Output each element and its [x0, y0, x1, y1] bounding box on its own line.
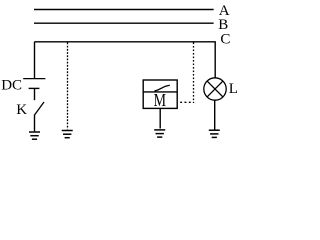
svg-text:C: C	[220, 31, 230, 47]
battery DC positive plate	[23, 78, 45, 80]
lamp L circle	[204, 78, 226, 100]
wire phase line C	[34, 41, 215, 43]
svg-text:M: M	[154, 90, 166, 110]
motor box divider	[143, 91, 177, 93]
switch K blade	[35, 102, 45, 115]
svg-text:L: L	[229, 81, 238, 97]
battery DC negative plate	[29, 87, 40, 89]
motor M enclosure box	[143, 80, 177, 108]
wire battery to switch K	[34, 88, 36, 100]
lamp L cross stroke 2	[207, 81, 223, 97]
wire switch K to ground	[34, 115, 36, 132]
ground under motor M	[154, 130, 165, 137]
svg-text:K: K	[16, 102, 27, 118]
wire motor M to ground	[159, 108, 161, 128]
wire lamp L to ground	[214, 100, 216, 130]
ground under switch K	[29, 132, 40, 139]
wire right drop from line C to lamp L	[214, 42, 216, 78]
ground under dotted earth conductor	[62, 131, 73, 138]
svg-text:DC: DC	[1, 77, 22, 93]
lamp L cross stroke 1	[207, 81, 223, 97]
dotted fault wire vertical from line C	[193, 43, 195, 104]
wire phase line B	[34, 22, 214, 24]
dotted earth conductor at line C left	[67, 43, 69, 130]
wire phase line A	[34, 9, 214, 11]
motor internal switch blade	[155, 85, 170, 91]
dotted fault wire horizontal to motor box	[180, 101, 193, 103]
ground under lamp L	[209, 130, 220, 137]
wire left drop from line C to battery	[34, 42, 36, 79]
